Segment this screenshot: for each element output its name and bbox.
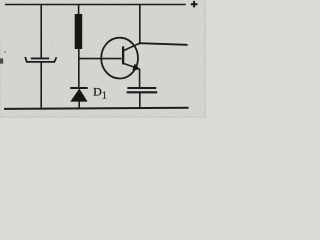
wire collector branch from top rail <box>139 5 141 44</box>
wire resistor to diode node <box>78 49 80 87</box>
label D1 <box>93 84 107 101</box>
transistor Q1 collector lead <box>123 43 140 51</box>
wire battery branch from top rail <box>40 5 42 58</box>
wire capacitor to bottom rail <box>139 92 141 108</box>
scan edge mark left <box>0 58 3 63</box>
diode D1 cathode bar <box>70 87 88 89</box>
wire diode to bottom rail <box>78 101 80 109</box>
junction collector node <box>139 42 141 44</box>
transistor Q1 emitter lead with arrow <box>123 63 140 69</box>
scan shading left edge <box>0 40 1 118</box>
transistor Q1 circle <box>101 38 138 79</box>
transistor Q1 base bar <box>122 46 124 64</box>
svg-text:1: 1 <box>102 91 107 102</box>
wire battery to bottom rail <box>40 62 42 109</box>
resistor R1 (solid bar) <box>75 14 83 49</box>
wire emitter to capacitor <box>139 69 141 88</box>
paper background <box>0 0 206 118</box>
wire top supply rail <box>5 4 186 6</box>
scan speck <box>4 51 6 53</box>
wire resistor branch from top rail <box>78 5 80 16</box>
capacitor C1 top plate <box>127 87 156 89</box>
battery B1 bottom plate with upturned ends <box>25 57 56 62</box>
scan shading bottom edge <box>0 116 206 118</box>
transistor Q1 emitter arrowhead <box>133 64 140 70</box>
battery B1 top plate <box>31 57 49 59</box>
scan shading right edge <box>204 0 206 118</box>
wire base lead to transistor <box>79 58 122 60</box>
diode D1 triangle (anode, pointing up) <box>71 89 87 101</box>
plus terminal label + <box>191 1 198 8</box>
wire collector output stub <box>140 43 187 45</box>
wire bottom return rail <box>4 108 189 109</box>
capacitor C1 bottom plate <box>127 91 158 93</box>
